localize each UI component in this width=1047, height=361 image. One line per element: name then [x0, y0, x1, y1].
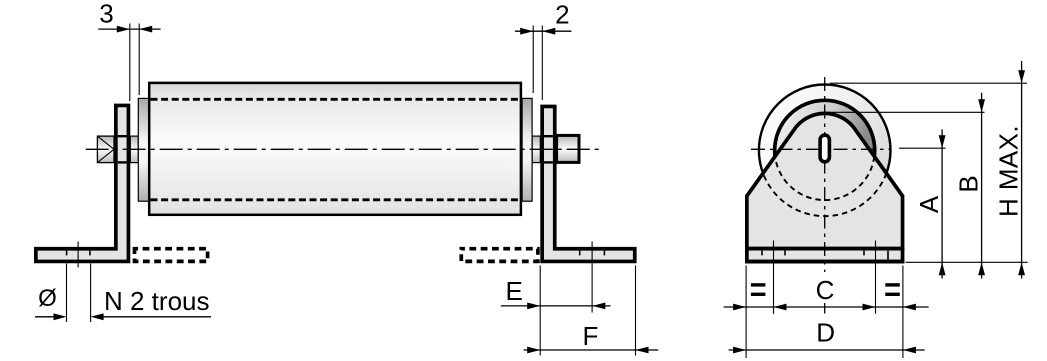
base plate top line [745, 247, 904, 251]
end view vertical centerline [824, 77, 826, 272]
right L-bracket (black outline silhouette) [540, 105, 636, 264]
dim E: extension line [539, 266, 541, 356]
right foot hole centerline / E extension [591, 242, 593, 313]
left bracket shaft-hole edge ticks [118, 135, 127, 137]
shaft left end block with chamfer marks [97, 136, 114, 163]
label = left [751, 283, 766, 286]
dim B: vertical line and arrows [981, 93, 983, 279]
roller side view: centerline [86, 148, 603, 150]
end view: bracket body with arched top [747, 113, 903, 261]
roller hidden line top [151, 98, 520, 101]
svg-text:B: B [953, 175, 983, 192]
left foot hole centerline [77, 242, 79, 268]
bottom dim extension lines [745, 266, 747, 359]
dim C row: dimension line with arrows [724, 306, 929, 308]
left L-bracket (black outline silhouette) [34, 104, 130, 264]
dim F: extension line right [635, 266, 637, 356]
svg-text:A: A [914, 195, 944, 213]
svg-text:C: C [816, 275, 835, 305]
roller left end cap [138, 98, 149, 201]
hidden opposite foot (dashed) right [461, 249, 538, 262]
roller right end cap [522, 98, 532, 201]
roller body [149, 83, 521, 215]
svg-text:E: E [506, 276, 523, 306]
slot at top of bracket [820, 135, 829, 162]
svg-text:H MAX.: H MAX. [994, 125, 1024, 217]
svg-text:N 2 trous: N 2 trous [104, 286, 210, 316]
svg-text:2: 2 [555, 0, 569, 30]
end view: outer circle (roller) [759, 85, 891, 217]
right bracket shaft-hole edge ticks [544, 135, 553, 137]
hidden arc of inner circle (dashed) [775, 156, 874, 200]
right L-bracket interior [544, 108, 633, 259]
left L-bracket interior [38, 107, 127, 259]
svg-text:F: F [583, 321, 599, 351]
dim A: extension line [899, 147, 946, 149]
shaft sliver between roller cap and right bracket [532, 136, 540, 163]
dim 3: dimension line and arrows [98, 28, 160, 30]
dim H MAX: extension line [830, 82, 1027, 84]
svg-text:Ø: Ø [38, 285, 57, 312]
bottom extension line (bracket base level) [906, 261, 1028, 263]
shaft right stub [557, 135, 579, 162]
dim B: extension line [825, 111, 985, 113]
roller hidden line bottom [151, 198, 520, 201]
base hole edge ticks [761, 251, 763, 256]
dim 2: extension lines [532, 26, 534, 94]
hidden opposite foot (dashed) left [135, 249, 208, 262]
dim 2: dimension line and arrows [515, 30, 572, 32]
left foot hole edge ticks [66, 251, 68, 256]
hidden arc of outer circle (dashed) [763, 173, 886, 216]
dim H MAX: vertical line and arrows [1021, 61, 1023, 279]
label = right [885, 283, 900, 286]
dim D: dimension line with arrows [729, 349, 925, 351]
base plate bottom line [745, 260, 904, 264]
svg-text:3: 3 [99, 0, 113, 29]
svg-text:D: D [816, 318, 835, 348]
dim F: dimension line and arrows [524, 349, 659, 351]
shaft sliver between left bracket and roller cap [130, 136, 138, 163]
right foot hole edge ticks [579, 251, 581, 256]
dim E: dimension line and arrows [501, 305, 611, 307]
end view: inner circle (tube) with shaded crescent fill [775, 100, 875, 200]
base hole centerlines / C extension lines [773, 241, 775, 314]
end view horizontal centerline [751, 148, 890, 150]
dim diameter: extension lines [66, 264, 68, 323]
dim diameter: lines and arrows [35, 316, 54, 318]
dim 3: extension lines [129, 24, 131, 102]
dim A: vertical line and arrows [941, 129, 943, 278]
